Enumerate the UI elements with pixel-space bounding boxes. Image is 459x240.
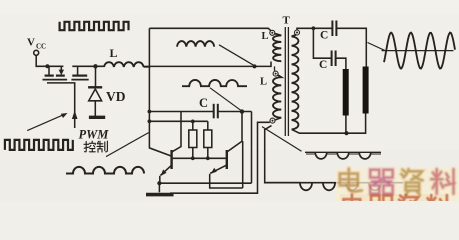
winding A phase dot terminal — [270, 30, 275, 35]
PWM drive arrow (up) on gate lead — [72, 111, 78, 120]
gate lead of MOSFET — [47, 83, 75, 128]
electrode bar 2 — [363, 67, 369, 114]
wire winding-B bottom to ground bus (V2) — [170, 122, 270, 193]
wire cap-node down (V1) — [251, 112, 253, 184]
callout line to capacitor node — [210, 88, 241, 111]
sine axis line — [382, 50, 454, 52]
transformer core — [284, 27, 286, 136]
wire Vcc down to rail — [36, 55, 47, 66]
diode VD (freewheel) — [95, 66, 97, 86]
callout line to sine waveform — [368, 43, 385, 51]
capacitor C (coupling) — [213, 104, 215, 119]
wire: mid rail to transformer — [144, 62, 271, 67]
junction node top-right — [312, 26, 316, 30]
transformer secondary winding — [292, 35, 299, 130]
waveform: PWM square wave — [5, 140, 73, 150]
electrode bar 1 — [343, 69, 349, 116]
watermark background tint — [336, 167, 459, 201]
arrow from PWM wave to gate — [27, 114, 64, 130]
watermark row 1 — [340, 169, 455, 195]
capacitor C2 (output) — [331, 51, 333, 67]
callout line to mid-rail node — [219, 45, 254, 65]
callout line from humps to bus — [106, 133, 149, 157]
wire winding-B bottom down to output line (V3) — [265, 126, 300, 183]
svg-text:CC: CC — [36, 43, 46, 51]
winding B phase dot terminal — [273, 71, 278, 76]
winding B bottom terminal — [270, 118, 275, 123]
watermark row 2 (clipped) — [344, 195, 448, 219]
junction node (Vcc/source) — [45, 64, 49, 68]
waveform: output sine — [384, 33, 455, 69]
transformer winding B — [273, 75, 281, 118]
coil current sketch (inside loop) — [177, 41, 214, 47]
junction node at return wire — [344, 131, 348, 135]
wire secondary top rail — [297, 28, 332, 30]
waveform: output line with half-sine bumps — [265, 182, 403, 184]
wire L to bus — [144, 66, 151, 68]
base line Q1->Q2 — [172, 157, 227, 159]
secondary winding phase dot — [295, 30, 300, 35]
svg-text:L: L — [260, 77, 267, 88]
junction node (switch/diode/L) — [93, 64, 97, 68]
junction node R2 bottom — [206, 156, 210, 160]
wire cap2 to left electrode — [336, 58, 346, 69]
wire: main vertical bus — [149, 28, 170, 156]
junction node R1 bottom — [191, 156, 195, 160]
wire Q2 collector net down (V x=242) — [242, 141, 244, 188]
transformer winding A — [273, 34, 281, 62]
resistor R1 — [192, 121, 194, 130]
svg-text:L: L — [110, 46, 118, 60]
junction node R1 top — [191, 120, 195, 124]
Vcc terminal circle — [34, 50, 39, 55]
wire secondary bottom to return — [292, 129, 346, 133]
wire drop to cap2 — [313, 28, 331, 58]
inductor L — [104, 62, 144, 67]
svg-text:L: L — [262, 31, 269, 42]
svg-text:C: C — [320, 30, 328, 42]
svg-text:T: T — [283, 15, 291, 27]
svg-text:VD: VD — [106, 89, 126, 104]
waveform: rectified half-sines (gate current) — [66, 167, 144, 174]
junction node at cap C right — [240, 109, 244, 113]
wire emitter bus — [159, 182, 251, 184]
wire cap1 to right leg — [336, 28, 366, 66]
ground under diode VD — [89, 116, 105, 119]
wire rail2 to resistor tops — [149, 120, 207, 122]
wire rail to coupling capacitor C — [149, 111, 213, 113]
junction node bus/rail1 — [148, 110, 152, 114]
transistor V (MOSFET switch) — [47, 65, 63, 67]
svg-text:C: C — [199, 96, 208, 110]
callout line winding-B to waveform — [262, 127, 302, 152]
svg-text:PWM: PWM — [79, 128, 110, 142]
transistor Q2 (NPN) — [226, 150, 228, 169]
junction node Q1 emitter — [157, 181, 161, 185]
waveform: half-sine bumps below line — [305, 151, 381, 153]
junction node bus/rail2 — [148, 119, 152, 123]
wire cap C to node — [218, 111, 252, 113]
junction node on mid rail — [253, 64, 257, 68]
waveform: top square wave (switch drive) — [60, 22, 129, 30]
transistor Q1 (NPN) — [170, 150, 172, 169]
ground (emitters) — [158, 183, 160, 192]
label 控制 (control) hand-drawn — [84, 141, 107, 152]
capacitor C1 (output) — [331, 21, 333, 37]
electrode bottom leads — [345, 116, 347, 134]
wire: top rail to transformer winding A — [149, 28, 271, 31]
winding current sketch (half-sine humps) — [182, 80, 247, 86]
resistor R2 — [207, 121, 209, 130]
svg-text:V: V — [27, 37, 35, 49]
svg-text:C: C — [319, 59, 327, 71]
